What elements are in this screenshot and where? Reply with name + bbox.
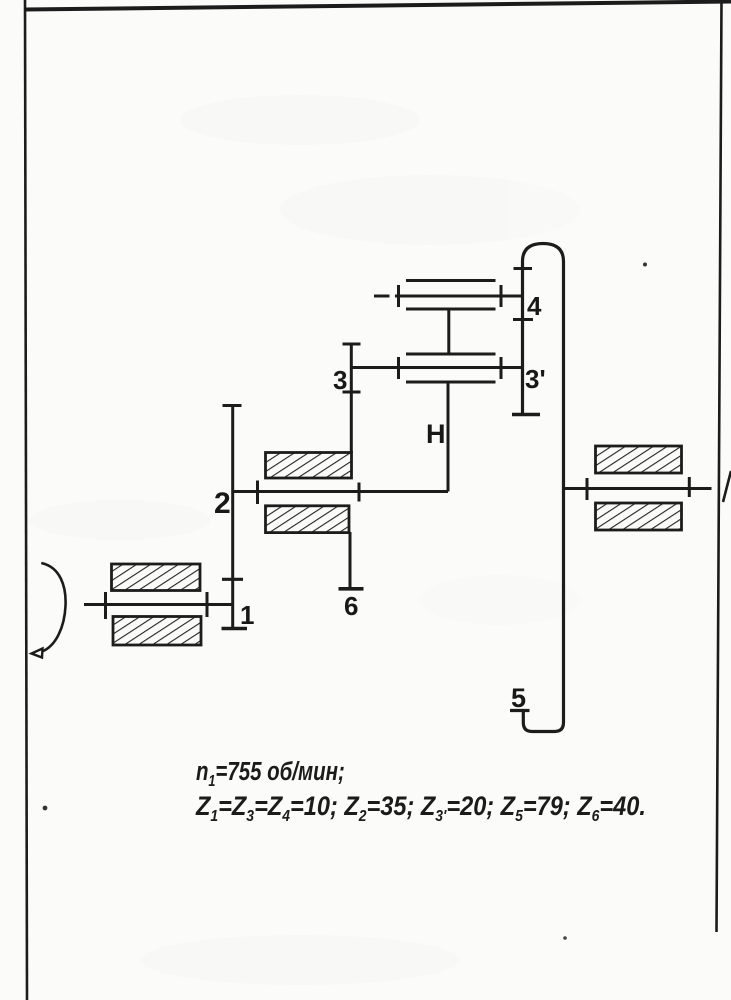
planet axis upper tick right: [500, 285, 503, 307]
gear 4 / 3' mid cap: [513, 318, 533, 321]
shaft II bearing block upper: [266, 453, 352, 479]
gear 1 / gear 2 mesh tick: [222, 578, 243, 581]
output bearing block upper: [596, 446, 682, 473]
svg-text:3: 3: [333, 365, 347, 395]
gear 4 top cap: [514, 267, 533, 270]
svg-text:n1=755 об/мин;: n1=755 об/мин;: [196, 757, 345, 791]
scan speck 1: [643, 263, 647, 267]
svg-text:1: 1: [240, 600, 254, 630]
svg-text:H: H: [426, 419, 446, 449]
gear 4 / gear 3' line: [521, 269, 524, 415]
svg-text:4: 4: [527, 291, 542, 321]
shaft I: [84, 603, 234, 606]
shaft III lower axis: [351, 366, 522, 369]
border right line: [717, 0, 722, 932]
shaft I bearing block upper: [112, 564, 201, 591]
gear 1 bottom cap: [222, 627, 248, 631]
carrier H line: [447, 382, 450, 492]
scan speck 3: [563, 936, 567, 940]
planet axis upper tick left: [397, 285, 400, 307]
planet gear upper bottom line: [406, 308, 496, 311]
svg-text:2: 2: [214, 487, 231, 520]
svg-text:3': 3': [525, 364, 546, 394]
border left line: [25, 0, 27, 1000]
gear 3 / gear 6 line lower part: [349, 532, 352, 589]
gear 3 bottom cap: [343, 391, 361, 394]
stray slash mark right edge: [723, 471, 731, 502]
gear 2 top cap: [223, 404, 242, 407]
gear 1 / gear 2 common line: [231, 406, 234, 629]
svg-text:5: 5: [511, 683, 526, 713]
shaft II bearing tick right: [358, 483, 361, 502]
shaft III planet axis upper: [374, 295, 390, 298]
ring gear 5 bottom cap: [510, 709, 530, 712]
planet gear lower top line: [406, 353, 496, 356]
shaft II bearing tick left: [256, 481, 259, 505]
shaft I bearing block lower: [113, 617, 201, 646]
faint scan smudges: [30, 95, 580, 985]
planet gear upper top line: [406, 279, 496, 282]
input rotation arrow arc: [41, 563, 65, 652]
input arrowhead: [32, 649, 43, 658]
scan speck 2: [43, 806, 48, 811]
planet connector: [447, 309, 450, 354]
border top line: [25, 2, 731, 10]
gear 3' bottom cap: [512, 413, 540, 416]
ring gear 5: [523, 244, 564, 732]
svg-text:6: 6: [344, 591, 358, 621]
output bearing tick left: [586, 478, 589, 500]
output shaft: [564, 487, 712, 490]
shaft II bearing block lower: [266, 506, 350, 533]
gear 3 / gear 6 line upper part: [350, 344, 353, 453]
lower axis tick right: [500, 357, 503, 379]
gear 3 top cap: [343, 343, 361, 346]
shaft II: [233, 490, 448, 493]
svg-text:Z1=Z3=Z4=10; Z2=35; Z3'=20; Z5: Z1=Z3=Z4=10; Z2=35; Z3'=20; Z5=79; Z6=40…: [195, 792, 646, 826]
gear 6 bottom cap: [339, 587, 364, 591]
lower axis tick left: [397, 357, 400, 379]
shaft I bearing tick left: [104, 592, 107, 619]
output bearing tick right: [688, 477, 691, 497]
planet gear lower bottom line: [406, 381, 496, 384]
shaft I bearing tick right: [206, 592, 209, 617]
output bearing block lower: [596, 503, 682, 530]
